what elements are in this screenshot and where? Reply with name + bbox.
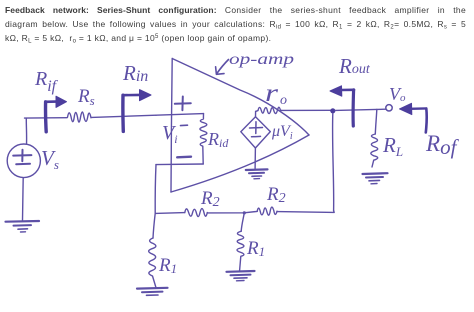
label uvi xyxy=(271,123,293,142)
arrow Rif xyxy=(46,96,67,132)
label R1 left xyxy=(158,255,177,276)
label vi xyxy=(162,122,178,146)
wire Vs top lead xyxy=(25,118,27,144)
svg-text:R1: R1 xyxy=(158,255,177,276)
label R2 left xyxy=(200,188,220,210)
node Vo open terminal xyxy=(386,105,392,111)
arrow to op-amp xyxy=(216,60,229,75)
svg-text:Rof: Rof xyxy=(425,131,460,159)
resistor RS xyxy=(68,112,92,122)
resistor R2 left xyxy=(185,209,208,217)
wire feedback bottom right segment xyxy=(277,211,334,213)
svg-text:Rid: Rid xyxy=(207,129,229,150)
svg-text:Rs: Rs xyxy=(77,86,95,108)
label Rs xyxy=(77,86,95,108)
arrow Rof xyxy=(400,103,427,132)
label R1 right xyxy=(246,238,265,259)
label RL xyxy=(382,133,403,159)
label Rof xyxy=(425,131,460,159)
label op-amp xyxy=(229,51,294,68)
wire R1 left top lead xyxy=(153,213,155,238)
wire Vs bottom lead xyxy=(22,178,25,221)
node R1 right junction xyxy=(243,211,246,214)
arrow Rout xyxy=(330,86,354,126)
dependent source U2 diamond xyxy=(241,117,270,148)
ground below diamond xyxy=(246,169,268,178)
svg-text:RL: RL xyxy=(382,133,403,159)
label R2 right xyxy=(266,184,286,206)
wire between R2s xyxy=(207,211,257,213)
svg-text:Vi: Vi xyxy=(162,122,178,146)
minus input terminal xyxy=(177,155,191,158)
svg-text:μVi: μVi xyxy=(271,123,293,142)
svg-text:R1: R1 xyxy=(246,238,265,259)
svg-text:r: r xyxy=(265,80,278,107)
label Vo xyxy=(389,84,406,104)
svg-text:op-amp: op-amp xyxy=(229,51,294,68)
label Rif xyxy=(34,68,59,95)
wire input box top xyxy=(156,114,204,116)
arrow Rin xyxy=(123,90,151,132)
resistor R1 left xyxy=(149,238,156,287)
minus mark beside vi xyxy=(181,124,188,126)
ground below R1 right xyxy=(227,271,255,281)
label Rid xyxy=(207,129,229,150)
resistor ro xyxy=(256,107,281,113)
node output junction xyxy=(330,108,335,113)
wire input box bottom xyxy=(156,163,203,166)
wire R2 to left junction xyxy=(155,212,185,215)
svg-text:R2: R2 xyxy=(200,188,220,210)
wire diamond top stem xyxy=(255,111,257,116)
op-amp U1 triangle xyxy=(171,59,309,193)
label Rout xyxy=(338,54,371,78)
svg-text:o: o xyxy=(280,93,287,108)
ground below Vs xyxy=(6,221,40,232)
svg-text:Rin: Rin xyxy=(122,61,148,85)
svg-text:R2: R2 xyxy=(266,184,286,206)
svg-text:Rif: Rif xyxy=(34,68,59,95)
label Rin xyxy=(122,61,148,85)
resistor Rid xyxy=(200,114,207,164)
ground below R1 left xyxy=(137,288,168,296)
voltage source VS circle xyxy=(7,144,40,178)
resistor RL xyxy=(371,134,378,167)
wire node to Vo xyxy=(335,109,385,110)
plus input terminal xyxy=(175,97,191,111)
wire feedback vertical xyxy=(333,113,334,210)
wire R1 right top lead xyxy=(241,213,244,231)
wire ro to output node xyxy=(281,109,331,111)
resistor R1 right xyxy=(237,231,244,270)
wire main input xyxy=(25,117,68,119)
wire diamond bottom stem xyxy=(254,148,256,169)
svg-text:Rout: Rout xyxy=(338,54,371,78)
wire RL top lead xyxy=(375,110,377,135)
resistor R2 right xyxy=(257,207,277,215)
wire inverting input drop xyxy=(154,165,157,214)
wire Rs to op-amp input xyxy=(92,115,156,117)
svg-text:Vs: Vs xyxy=(41,146,59,172)
svg-text:Vo: Vo xyxy=(389,84,406,104)
ground below RL xyxy=(363,173,388,184)
label ro xyxy=(265,80,287,108)
label Vs xyxy=(41,146,59,172)
